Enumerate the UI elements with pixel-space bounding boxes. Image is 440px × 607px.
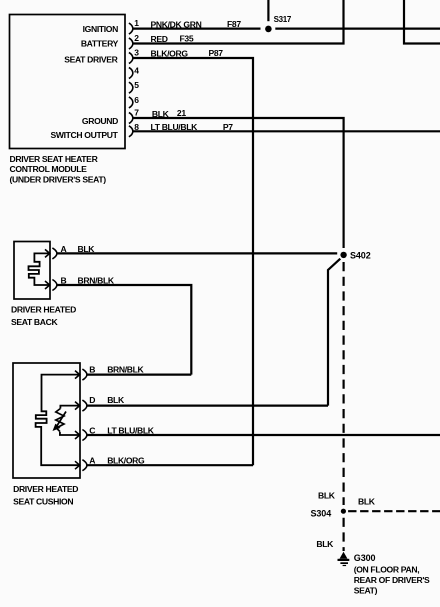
- svg-text:BLK: BLK: [358, 497, 376, 507]
- svg-text:S317: S317: [274, 15, 292, 24]
- thermistor arrow shaft: [57, 412, 67, 427]
- svg-text:BRN/BLK: BRN/BLK: [78, 275, 115, 285]
- svg-text:PNK/DK GRN: PNK/DK GRN: [151, 19, 202, 29]
- module pin 3 connector: [129, 53, 133, 64]
- svg-text:LT BLU/BLK: LT BLU/BLK: [107, 425, 155, 435]
- module pin 5 connector: [129, 82, 133, 93]
- module pin 6 connector: [129, 97, 133, 108]
- svg-text:SEAT BACK: SEAT BACK: [11, 317, 58, 327]
- wire cushion pin A BLK/ORG: [87, 464, 254, 466]
- module pin 2 connector: [129, 38, 133, 49]
- svg-text:IGNITION: IGNITION: [83, 24, 119, 34]
- svg-text:CONTROL MODULE: CONTROL MODULE: [10, 164, 88, 174]
- svg-text:GROUND: GROUND: [82, 116, 118, 126]
- svg-text:DRIVER HEATED: DRIVER HEATED: [13, 484, 78, 494]
- module pin 8 connector: [129, 126, 133, 137]
- svg-text:SEAT CUSHION: SEAT CUSHION: [13, 496, 73, 506]
- svg-text:DRIVER SEAT HEATER: DRIVER SEAT HEATER: [10, 154, 99, 164]
- cushion pin A connector: [82, 460, 87, 471]
- cushion pin D arrow: [75, 402, 80, 410]
- seat cushion box (driver heated seat cushion): [13, 363, 80, 478]
- wire pin 1 PNK/DK GRN circuit F87 to right edge: [133, 28, 440, 30]
- svg-text:6: 6: [134, 95, 139, 105]
- cushion pin C arrow: [75, 431, 80, 439]
- seat back box (driver heated seat back): [14, 242, 50, 300]
- cushion pin B connector: [82, 369, 87, 380]
- svg-text:BLK: BLK: [318, 490, 336, 500]
- ground G300 symbol: [338, 552, 350, 566]
- svg-text:F35: F35: [180, 34, 194, 44]
- svg-text:BLK: BLK: [152, 109, 170, 119]
- svg-text:C: C: [89, 425, 95, 435]
- module pin 4 connector: [129, 68, 133, 79]
- svg-text:4: 4: [134, 66, 139, 76]
- svg-text:BLK/ORG: BLK/ORG: [107, 456, 145, 466]
- wire from top edge turning right at top right corner: [404, 0, 440, 44]
- seat back pin A connector: [52, 248, 57, 259]
- svg-text:1: 1: [134, 18, 139, 28]
- wire dashed BLK from S304 down to ground G300: [343, 518, 345, 551]
- svg-text:BATTERY: BATTERY: [81, 39, 119, 49]
- cushion pin A arrow: [75, 461, 80, 469]
- cushion pin D connector: [82, 400, 87, 411]
- svg-text:SEAT DRIVER: SEAT DRIVER: [64, 55, 118, 65]
- svg-text:(UNDER DRIVER'S SEAT): (UNDER DRIVER'S SEAT): [10, 174, 107, 184]
- wire dashed BLK from S402 down to S304: [343, 262, 345, 505]
- wire seat back pin A BLK to splice S402: [57, 252, 338, 254]
- wire pin 3 BLK/ORG circuit P87 down to seat cushion pin A: [133, 58, 253, 465]
- svg-text:BLK: BLK: [78, 244, 96, 254]
- svg-text:A: A: [89, 456, 95, 466]
- svg-text:G300: G300: [354, 553, 376, 563]
- wire vertical branch up from splice S317: [267, 0, 269, 21]
- svg-text:B: B: [89, 364, 95, 374]
- wire dashed BLK from S304 to right edge: [348, 510, 440, 512]
- svg-text:3: 3: [134, 48, 139, 58]
- svg-text:DRIVER HEATED: DRIVER HEATED: [11, 304, 76, 314]
- svg-text:LT BLU/BLK: LT BLU/BLK: [151, 122, 199, 132]
- svg-text:21: 21: [177, 108, 186, 118]
- svg-text:BLK: BLK: [107, 395, 125, 405]
- wire cushion pin B BRN/BLK: [87, 374, 192, 376]
- seat back pin B arrow: [45, 281, 50, 289]
- junction dot S402: [340, 252, 346, 258]
- svg-text:D: D: [89, 395, 95, 405]
- wire cushion pin C LT BLU/BLK to right edge: [87, 434, 440, 436]
- heater element seat back: [29, 253, 50, 285]
- wire pin 8 LT BLU/BLK circuit P7 to right edge: [133, 130, 440, 132]
- seat back pin A arrow: [45, 249, 50, 257]
- wire thermistor leads to pins D and C: [60, 406, 79, 435]
- svg-text:2: 2: [134, 33, 139, 43]
- svg-text:F87: F87: [227, 19, 241, 29]
- svg-text:SWITCH OUTPUT: SWITCH OUTPUT: [50, 130, 118, 140]
- svg-text:5: 5: [134, 80, 139, 90]
- svg-text:P7: P7: [223, 122, 233, 132]
- cushion pin C connector: [82, 430, 87, 441]
- svg-text:8: 8: [134, 122, 139, 132]
- svg-text:S304: S304: [311, 508, 332, 518]
- svg-text:P87: P87: [209, 48, 224, 58]
- svg-text:BLK: BLK: [316, 539, 334, 549]
- heater element seat cushion: [36, 375, 79, 466]
- module pin 7 connector: [129, 113, 133, 124]
- svg-text:B: B: [61, 275, 67, 285]
- thermistor zigzag body: [56, 409, 64, 432]
- cushion pin B arrow: [75, 371, 80, 379]
- svg-text:REAR OF DRIVER'S: REAR OF DRIVER'S: [354, 575, 430, 585]
- svg-text:RED: RED: [151, 34, 168, 44]
- svg-text:(ON FLOOR PAN,: (ON FLOOR PAN,: [354, 565, 420, 575]
- wire seat back pin B BRN/BLK down to cushion pin B: [57, 285, 192, 375]
- module pin 1 connector: [129, 23, 133, 34]
- svg-text:BRN/BLK: BRN/BLK: [107, 364, 144, 374]
- thermistor arrow head: [53, 424, 61, 431]
- wire cushion pin D BLK: [87, 405, 329, 407]
- svg-text:A: A: [61, 244, 67, 254]
- seat back pin B connector: [52, 280, 57, 291]
- svg-text:7: 7: [134, 108, 139, 118]
- junction dot S317: [265, 26, 272, 33]
- wire pin 2 RED circuit F35 turning up to top edge: [133, 0, 344, 44]
- wire branch from S402 down to cushion pin D: [328, 259, 340, 406]
- control module box (driver seat heater control module): [10, 15, 126, 149]
- wire pin 7 BLK circuit 21 down to splice S402: [133, 118, 344, 248]
- svg-text:SEAT): SEAT): [354, 585, 378, 595]
- svg-text:S402: S402: [350, 250, 371, 260]
- junction dot S304: [341, 509, 346, 514]
- svg-text:BLK/ORG: BLK/ORG: [151, 49, 189, 59]
